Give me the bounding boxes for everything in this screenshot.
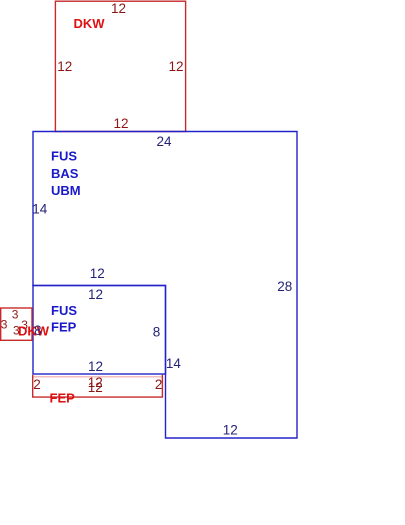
svg-text:12: 12 bbox=[111, 1, 126, 16]
svg-text:FEP: FEP bbox=[51, 320, 77, 335]
svg-text:12: 12 bbox=[90, 266, 105, 281]
svg-text:8: 8 bbox=[153, 324, 161, 339]
svg-text:12: 12 bbox=[169, 59, 184, 74]
rect DKW small bbox=[1, 308, 32, 340]
svg-text:UBM: UBM bbox=[51, 183, 81, 198]
svg-text:DKW: DKW bbox=[74, 16, 106, 31]
svg-text:24: 24 bbox=[157, 134, 173, 149]
svg-text:14: 14 bbox=[32, 202, 48, 217]
svg-text:12: 12 bbox=[223, 422, 238, 437]
svg-text:BAS: BAS bbox=[51, 166, 79, 181]
svg-text:14: 14 bbox=[166, 356, 182, 371]
svg-text:2: 2 bbox=[33, 377, 41, 392]
polygon main blue L-shape bbox=[33, 132, 297, 439]
svg-text:FEP: FEP bbox=[50, 390, 76, 405]
svg-text:12: 12 bbox=[57, 59, 72, 74]
svg-text:12: 12 bbox=[88, 380, 103, 395]
svg-text:3: 3 bbox=[12, 308, 19, 322]
svg-text:2: 2 bbox=[155, 377, 163, 392]
rect inner FUS FEP bbox=[33, 286, 166, 375]
svg-text:8: 8 bbox=[34, 323, 42, 338]
svg-text:3: 3 bbox=[1, 318, 8, 332]
svg-text:FUS: FUS bbox=[51, 148, 77, 163]
svg-text:12: 12 bbox=[88, 287, 103, 302]
svg-text:28: 28 bbox=[277, 279, 292, 294]
svg-text:12: 12 bbox=[88, 359, 103, 374]
svg-text:FUS: FUS bbox=[51, 303, 77, 318]
rect DKW top bbox=[55, 1, 185, 131]
rect FEP bottom: left, bottom, right edges bbox=[32, 375, 163, 397]
rect FEP bottom: faint top edge bbox=[33, 376, 162, 378]
svg-text:12: 12 bbox=[114, 116, 129, 131]
